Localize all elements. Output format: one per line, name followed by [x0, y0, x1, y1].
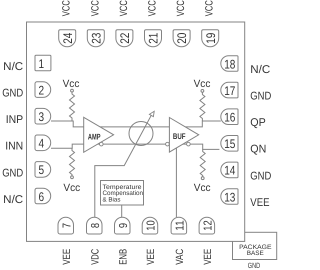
svg-text:2: 2: [39, 83, 45, 97]
Vcc terminal circle upper-left: [71, 89, 74, 92]
pin 6 pad: [35, 188, 51, 204]
svg-text:1: 1: [39, 57, 45, 71]
svg-text:ENB: ENB: [118, 249, 130, 265]
svg-text:VCC: VCC: [89, 0, 101, 16]
wire VDC attenuator control: [95, 115, 152, 217]
svg-text:Vcc: Vcc: [194, 182, 211, 194]
svg-text:AMP: AMP: [88, 133, 101, 142]
svg-text:GND: GND: [250, 91, 271, 103]
resistor upper-right: [200, 92, 205, 121]
svg-text:11: 11: [174, 220, 186, 230]
svg-text:VCC: VCC: [175, 0, 187, 16]
svg-text:VEE: VEE: [145, 249, 157, 265]
attenuator arrowhead: [149, 111, 154, 116]
pin 21 pad: [145, 30, 162, 47]
svg-text:QP: QP: [250, 117, 265, 129]
svg-text:QN: QN: [250, 144, 266, 156]
svg-text:INP: INP: [6, 114, 24, 126]
pin 12 pad: [199, 217, 215, 234]
svg-text:GND: GND: [2, 88, 23, 100]
wire INP rail: [51, 121, 221, 127]
wire INN rail: [51, 144, 219, 149]
pin 23 pad: [87, 30, 104, 47]
svg-text:13: 13: [224, 190, 235, 204]
svg-text:& Bias: & Bias: [103, 197, 121, 204]
svg-text:3: 3: [39, 110, 45, 124]
pin 9 pad: [115, 217, 131, 234]
svg-text:GND: GND: [248, 261, 261, 270]
bubble BUF input: [166, 142, 170, 146]
bubble AMP output: [100, 142, 104, 146]
svg-text:Vcc: Vcc: [63, 78, 80, 90]
pin 17 pad: [221, 82, 238, 98]
svg-text:BASE: BASE: [247, 250, 264, 257]
svg-text:VCC: VCC: [118, 0, 130, 16]
svg-text:BUF: BUF: [173, 132, 186, 141]
svg-text:Vcc: Vcc: [194, 78, 211, 90]
temperature compensation and bias box: [101, 181, 144, 206]
svg-text:24: 24: [61, 33, 75, 44]
attenuator circle: [129, 122, 153, 146]
svg-text:VCC: VCC: [61, 0, 73, 16]
svg-text:23: 23: [89, 33, 103, 44]
svg-text:VAC: VAC: [174, 248, 186, 264]
Vcc terminal circle lower-left: [71, 176, 74, 179]
svg-text:VEE: VEE: [250, 197, 270, 209]
resistor lower-right: [200, 149, 205, 176]
svg-text:Vcc: Vcc: [63, 182, 80, 194]
svg-text:22: 22: [118, 33, 132, 44]
pin 18 pad: [221, 56, 238, 72]
svg-text:17: 17: [224, 84, 235, 98]
pin 11 pad: [171, 217, 187, 234]
svg-text:N/C: N/C: [3, 61, 23, 73]
package outline: [27, 22, 245, 241]
resistor upper-left: [70, 92, 75, 121]
svg-text:GND: GND: [2, 167, 23, 179]
pin 3 pad: [35, 108, 51, 124]
pin 8 pad: [87, 217, 103, 234]
resistor lower-left: [70, 148, 75, 176]
svg-text:VDC: VDC: [89, 249, 101, 265]
svg-text:12: 12: [202, 220, 214, 230]
buffer BUF: [169, 118, 198, 153]
Vcc terminal circle upper-right: [201, 90, 204, 93]
pin 7 pad: [58, 217, 74, 234]
svg-text:14: 14: [224, 164, 235, 178]
svg-text:GND: GND: [250, 170, 271, 182]
svg-text:4: 4: [39, 137, 45, 151]
svg-text:8: 8: [90, 223, 102, 228]
pin 2 pad: [35, 82, 51, 98]
op-amp AMP: [84, 117, 114, 152]
svg-text:20: 20: [175, 33, 189, 44]
pin 24 pad: [59, 30, 76, 47]
svg-text:21: 21: [147, 33, 161, 44]
pin 22 pad: [116, 30, 133, 47]
package base pad box: [233, 232, 277, 259]
pin 15 pad: [221, 136, 238, 152]
svg-text:VEE: VEE: [61, 249, 73, 265]
svg-text:16: 16: [224, 111, 235, 125]
svg-text:VCC: VCC: [204, 0, 216, 16]
pin 5 pad: [35, 162, 51, 178]
svg-text:VEE: VEE: [202, 249, 214, 265]
bubble BUF output: [187, 142, 191, 146]
pin 19 pad: [202, 30, 219, 47]
svg-text:VCC: VCC: [147, 0, 159, 16]
svg-text:N/C: N/C: [250, 64, 270, 76]
svg-text:19: 19: [204, 33, 218, 44]
pin 13 pad: [221, 189, 238, 205]
svg-text:7: 7: [61, 223, 73, 228]
pin 20 pad: [173, 30, 190, 47]
svg-text:9: 9: [118, 223, 130, 228]
svg-text:18: 18: [224, 57, 235, 71]
svg-text:5: 5: [39, 163, 45, 177]
pin 16 pad: [221, 109, 238, 125]
wire VAC to BUF: [175, 148, 177, 217]
pin 4 pad: [35, 135, 51, 151]
pin 14 pad: [221, 162, 238, 178]
svg-text:15: 15: [224, 137, 235, 151]
svg-text:N/C: N/C: [3, 194, 23, 206]
wire ENB to bias box: [121, 205, 123, 217]
Vcc terminal circle lower-right: [201, 177, 204, 180]
svg-text:6: 6: [39, 190, 45, 204]
svg-text:10: 10: [146, 220, 158, 230]
pin 1 pad: [35, 55, 51, 71]
pin 10 pad: [142, 217, 158, 234]
svg-text:INN: INN: [5, 141, 23, 153]
